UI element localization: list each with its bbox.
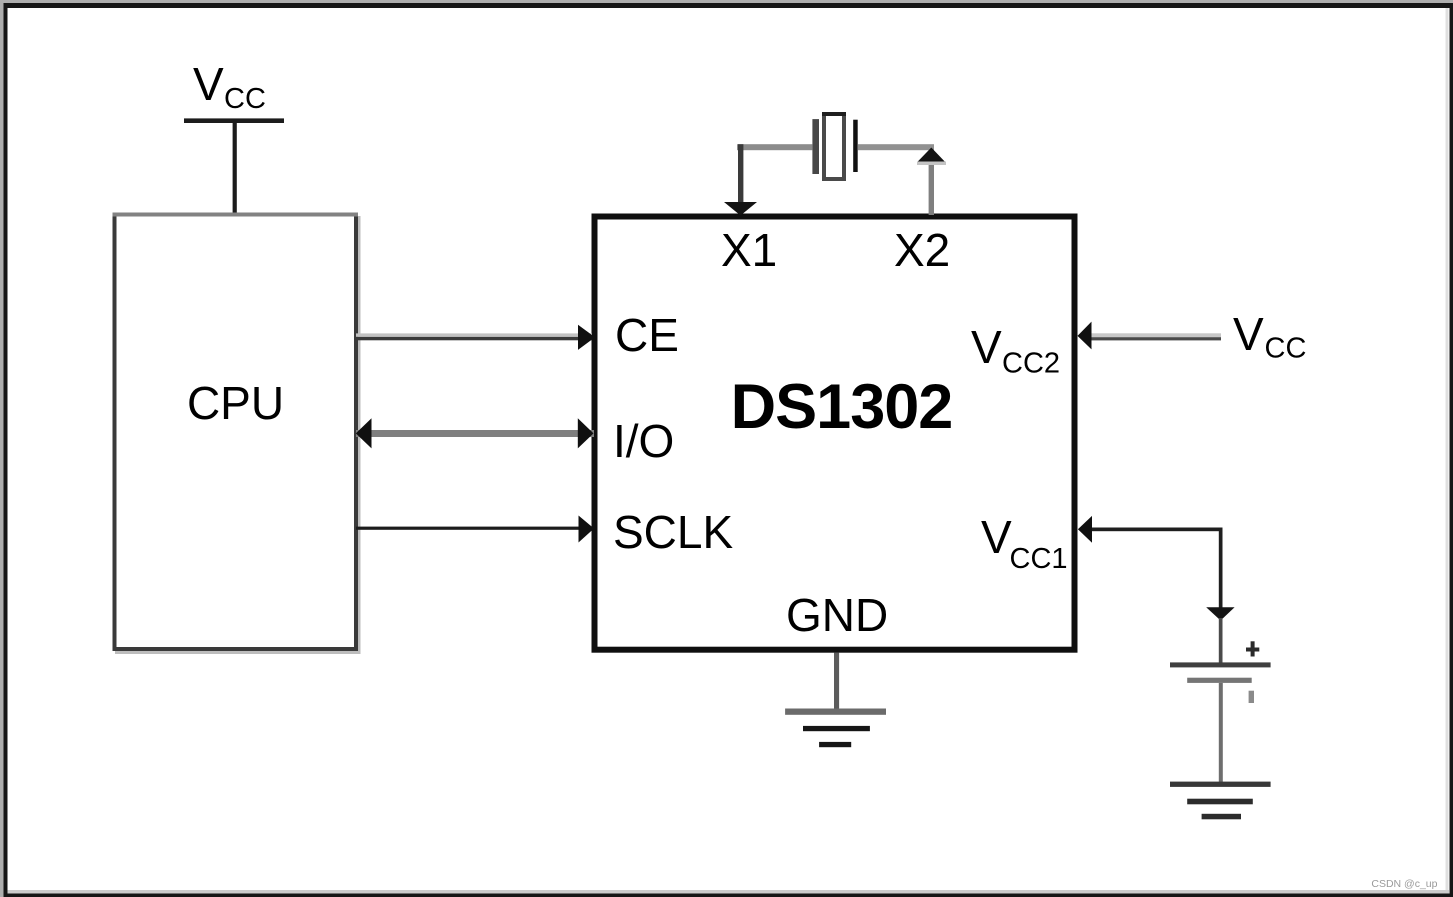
svg-text:X1: X1 bbox=[721, 224, 777, 276]
pin label VCC2 bbox=[971, 321, 1060, 380]
svg-text:CC1: CC1 bbox=[1010, 543, 1068, 575]
wire SCLK bbox=[356, 527, 592, 530]
svg-text:V: V bbox=[981, 511, 1012, 563]
svg-text:V: V bbox=[1233, 308, 1264, 360]
wire CE (CPU to DS1302) bbox=[356, 333, 592, 340]
svg-text:V: V bbox=[971, 321, 1002, 373]
crystal Y1 bbox=[812, 112, 857, 179]
battery BT1 bbox=[1170, 641, 1271, 783]
arrowhead into CE bbox=[578, 325, 595, 350]
svg-text:V: V bbox=[193, 58, 224, 110]
arrowhead into SCLK bbox=[579, 516, 595, 543]
arrowhead left at CPU bbox=[356, 418, 372, 448]
wire VCC rail to CPU bbox=[233, 123, 237, 214]
arrowhead right into I/O bbox=[578, 418, 594, 448]
svg-text:SCLK: SCLK bbox=[613, 506, 733, 558]
wire crystal left to X1 bbox=[737, 144, 812, 204]
svg-text:DS1302: DS1302 bbox=[731, 372, 953, 442]
wire arrow to battery plus bbox=[1219, 618, 1223, 663]
arrowhead into VCC2 bbox=[1078, 322, 1092, 350]
CPU box U2 bbox=[113, 213, 361, 655]
arrowhead up at X2 bbox=[917, 148, 946, 166]
svg-text:CSDN @c_up: CSDN @c_up bbox=[1371, 878, 1437, 890]
svg-text:CC: CC bbox=[1265, 333, 1307, 365]
svg-text:X2: X2 bbox=[894, 224, 950, 276]
arrowhead into X1 bbox=[724, 202, 757, 216]
net VCC (right) label bbox=[1233, 308, 1306, 365]
power symbol VCC (top-left) bbox=[184, 58, 284, 123]
wire crystal right to X2 bbox=[858, 144, 934, 215]
svg-text:CPU: CPU bbox=[187, 377, 284, 429]
svg-text:CC2: CC2 bbox=[1002, 348, 1060, 380]
ground (battery side) bbox=[1170, 782, 1271, 820]
wire VCC to VCC2 bbox=[1091, 333, 1221, 340]
svg-text:GND: GND bbox=[786, 589, 888, 641]
wire I/O (bidirectional) bbox=[356, 430, 594, 437]
IC U1 DS1302 box bbox=[595, 217, 1075, 650]
svg-text:CC: CC bbox=[224, 83, 266, 115]
pin label VCC1 bbox=[981, 511, 1068, 575]
svg-text:CE: CE bbox=[615, 309, 679, 361]
ground (GND pin) bbox=[785, 709, 886, 748]
arrowhead into VCC1 bbox=[1078, 516, 1092, 543]
wire GND pin down bbox=[834, 653, 839, 714]
wire battery to VCC1 bbox=[1092, 528, 1223, 608]
svg-text:I/O: I/O bbox=[613, 415, 674, 467]
arrowhead down to battery bbox=[1206, 607, 1234, 620]
